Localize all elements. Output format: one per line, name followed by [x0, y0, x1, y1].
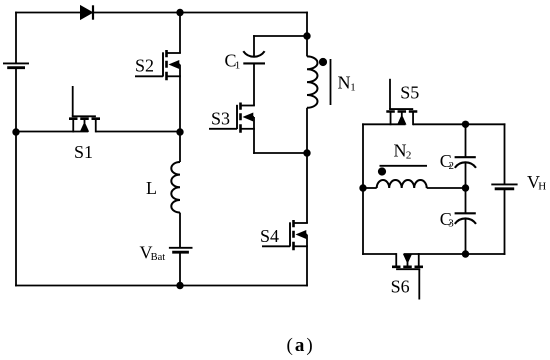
- node N1 top / C1 branch: [303, 32, 310, 39]
- wire HV left rail: [362, 123, 364, 255]
- wire left rail lower: [15, 68, 17, 287]
- node HV bottom / C3: [462, 250, 469, 257]
- wire S3 source down: [253, 129, 255, 154]
- battery V_H: [491, 184, 517, 188]
- svg-text:S2: S2: [135, 56, 154, 76]
- transistor S5: [386, 79, 417, 125]
- svg-text:N: N: [338, 72, 351, 92]
- node S1 drain / S2 source / L: [176, 128, 183, 135]
- wire left rail upper: [15, 12, 17, 64]
- node bottom bus: [176, 282, 183, 289]
- svg-text:2: 2: [406, 149, 412, 161]
- wire C3 top lead: [465, 188, 467, 213]
- winding N2: [377, 180, 427, 188]
- node N1 / S3 / S4: [303, 149, 310, 156]
- svg-text:S5: S5: [400, 83, 419, 103]
- svg-text:1: 1: [350, 82, 356, 94]
- diode D top bus: [81, 5, 94, 19]
- wire C3 bottom lead: [465, 219, 467, 254]
- wire HV top bus left S5 source side: [362, 123, 405, 125]
- winding bar N2: [380, 165, 428, 167]
- svg-text:(a): (a): [287, 335, 313, 356]
- battery input source left: [3, 63, 29, 67]
- svg-text:S3: S3: [211, 109, 230, 129]
- wire bottom bus: [15, 285, 308, 287]
- wire N1 top lead: [306, 36, 308, 56]
- wire HV bottom bus left S6 drain side: [362, 253, 396, 255]
- svg-text:3: 3: [448, 218, 454, 230]
- svg-text:Bat: Bat: [151, 252, 166, 263]
- winding bar N1: [330, 59, 332, 105]
- node N2 left: [359, 184, 366, 191]
- node left rail / S1 source: [12, 128, 19, 135]
- wire C2 top lead: [465, 124, 467, 157]
- svg-text:S1: S1: [74, 142, 93, 162]
- wire S1 drain side: [96, 131, 180, 133]
- wire S2 drain lead: [179, 13, 181, 54]
- svg-text:N: N: [394, 140, 407, 160]
- wire C1 to S3 drain: [253, 63, 255, 105]
- wire S4 source to bottom bus: [306, 246, 308, 286]
- transistor S4: [262, 220, 308, 250]
- svg-text:L: L: [146, 178, 157, 198]
- wire C1 top lead: [253, 35, 255, 57]
- wire top bus: [15, 12, 308, 14]
- svg-text:S6: S6: [391, 276, 410, 296]
- svg-text:H: H: [538, 181, 546, 193]
- wire L to V_Bat: [179, 213, 181, 248]
- polarity dot N1: [319, 58, 327, 66]
- svg-text:2: 2: [449, 160, 455, 172]
- transistor S2: [135, 50, 181, 80]
- wire C1 branch top: [253, 35, 307, 37]
- wire N1 bottom lead: [306, 108, 308, 153]
- wire HV top bus right S5 drain side: [413, 123, 505, 125]
- wire V_H bottom lead: [504, 189, 506, 255]
- winding N1: [307, 56, 318, 107]
- polarity dot N2: [378, 167, 386, 175]
- node top bus / S2 drain: [176, 9, 183, 16]
- wire node to S4 drain: [306, 153, 308, 223]
- node HV top / C2: [462, 121, 469, 128]
- svg-text:1: 1: [235, 59, 241, 71]
- capacitor C3: [455, 213, 476, 224]
- wire C2 bottom lead: [465, 163, 467, 189]
- svg-text:S4: S4: [260, 226, 279, 246]
- wire V_Bat to bottom bus: [179, 252, 181, 285]
- node C2 / C3 / N2: [462, 184, 469, 191]
- wire right rail top: [306, 12, 308, 36]
- wire N2 right lead: [427, 187, 466, 189]
- wire node to inductor L: [179, 132, 181, 162]
- battery V_Bat: [169, 248, 193, 252]
- capacitor C1: [243, 51, 265, 63]
- transistor S6: [392, 253, 423, 299]
- transistor S1: [69, 86, 100, 132]
- wire HV bottom bus right S6 source side: [404, 253, 506, 255]
- inductor L: [171, 162, 180, 213]
- wire S3 branch bottom: [253, 152, 307, 154]
- wire S2 source to node: [179, 76, 181, 132]
- transistor S3: [209, 103, 255, 133]
- wire V_H top lead: [504, 123, 506, 184]
- wire N2 left lead: [363, 187, 377, 189]
- capacitor C2: [455, 157, 476, 168]
- wire S1 source side: [16, 131, 88, 133]
